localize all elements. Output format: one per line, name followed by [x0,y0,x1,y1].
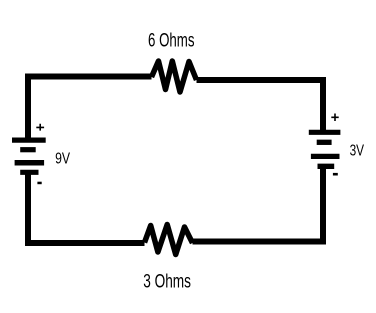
svg-text:6 Ohms: 6 Ohms [148,31,195,52]
svg-text:3 Ohms: 3 Ohms [143,272,191,293]
svg-text:3V: 3V [350,143,365,160]
svg-text:9V: 9V [55,151,70,168]
